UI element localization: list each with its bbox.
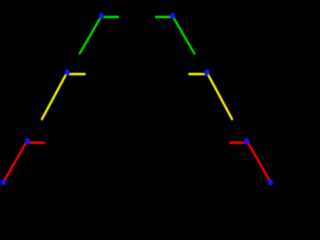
green horizontal tick left [104,16,118,18]
blue marker dot right middle bend [203,68,210,76]
blue marker dot left top bend [98,12,105,20]
blue marker dot left middle bend [64,68,71,76]
red diagonal guideline left [4,142,27,182]
yellow horizontal tick right [189,73,204,75]
rear-view camera guideline overlay [0,0,274,186]
green diagonal guideline right [173,17,194,54]
red horizontal tick right [230,141,244,143]
green horizontal tick right [156,16,170,18]
yellow diagonal guideline left [42,73,67,119]
blue marker dot right top bend [169,12,176,20]
yellow diagonal guideline right [207,73,232,119]
red diagonal guideline right [247,142,270,182]
blue marker dot right lower bend [243,137,250,145]
yellow horizontal tick left [70,73,85,75]
green diagonal guideline left [80,17,101,54]
blue marker dot left lower bend [24,137,31,145]
blue marker dot bottom-right corner [267,179,274,186]
red horizontal tick left [30,141,44,143]
blue marker dot bottom-left corner [0,179,7,186]
